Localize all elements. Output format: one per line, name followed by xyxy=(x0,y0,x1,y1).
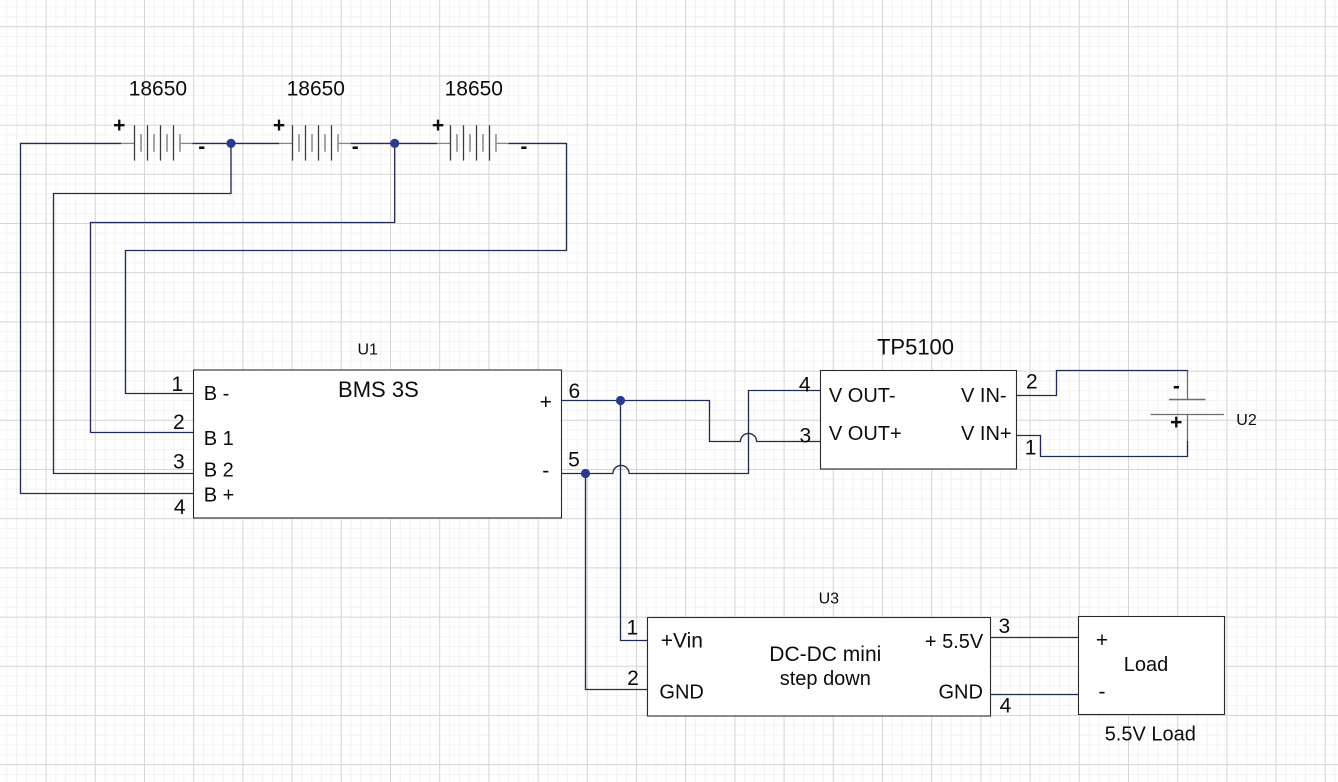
junction node U1 pin5 xyxy=(581,469,590,478)
svg-text:3: 3 xyxy=(999,615,1011,638)
svg-text:-: - xyxy=(542,460,549,483)
wire TP5100 pin 1 V IN+ to battery U2 positive xyxy=(1017,436,1188,457)
svg-text:B +: B + xyxy=(204,485,235,507)
svg-text:-: - xyxy=(1173,375,1180,398)
svg-text:GND: GND xyxy=(938,681,982,703)
svg-text:18650: 18650 xyxy=(129,78,187,101)
svg-text:B 1: B 1 xyxy=(204,428,234,450)
U1 BMS 3S box xyxy=(194,370,562,518)
svg-text:18650: 18650 xyxy=(445,78,503,101)
svg-text:-: - xyxy=(1099,680,1106,703)
svg-text:5: 5 xyxy=(568,449,580,472)
Load box xyxy=(1079,617,1225,715)
junction node battery2- xyxy=(390,139,399,148)
wire TP5100 pin 2 V IN- to battery U2 negative xyxy=(1017,371,1188,396)
wire node pin6 down to U3 pin 1 +Vin xyxy=(621,401,648,641)
svg-text:+Vin: +Vin xyxy=(661,630,703,653)
svg-text:18650: 18650 xyxy=(287,78,345,101)
wire battery3- to U1 B- pin 1 xyxy=(126,143,567,393)
battery BT3 18650 xyxy=(437,125,508,160)
wire U1 pin 5 - to TP5100 pin 4 V OUT- with hop xyxy=(562,391,821,474)
junction node U1 pin6 xyxy=(616,396,625,405)
wire battery1+ to U1 B+ pin 4 xyxy=(21,143,194,493)
battery BT1 18650 xyxy=(121,125,192,160)
svg-text:GND: GND xyxy=(659,681,703,703)
svg-text:2: 2 xyxy=(627,667,639,690)
svg-text:-: - xyxy=(520,135,527,158)
svg-text:V OUT+: V OUT+ xyxy=(829,423,902,445)
svg-text:1: 1 xyxy=(1025,437,1037,460)
TP5100 box xyxy=(821,371,1017,470)
U3 DC-DC box xyxy=(648,618,991,717)
wire U3 pin 3 +5.5V to Load + xyxy=(991,637,1079,639)
svg-text:+: + xyxy=(1096,629,1108,652)
svg-text:B -: B - xyxy=(204,383,230,405)
svg-text:2: 2 xyxy=(173,411,185,434)
svg-text:TP5100: TP5100 xyxy=(877,335,954,360)
svg-text:6: 6 xyxy=(568,380,580,403)
battery BT2 18650 xyxy=(279,125,351,160)
svg-text:4: 4 xyxy=(1000,695,1012,718)
svg-text:U2: U2 xyxy=(1236,412,1257,429)
svg-text:+: + xyxy=(540,391,552,414)
svg-text:V IN-: V IN- xyxy=(961,385,1007,407)
svg-text:-: - xyxy=(198,135,205,158)
wire node battery1- to U1 B2 pin 3 xyxy=(54,143,232,473)
battery U2 xyxy=(1151,371,1225,441)
wire node pin5 down to U3 pin 2 GND xyxy=(586,474,648,690)
svg-text:+: + xyxy=(1170,411,1182,434)
svg-text:3: 3 xyxy=(173,450,185,473)
svg-text:1: 1 xyxy=(626,617,638,640)
wire node battery2- to U1 B1 pin 2 xyxy=(91,143,395,432)
svg-text:+ 5.5V: + 5.5V xyxy=(925,631,984,653)
svg-text:2: 2 xyxy=(1026,371,1038,394)
svg-text:-: - xyxy=(352,135,359,158)
svg-text:5.5V Load: 5.5V Load xyxy=(1105,724,1196,746)
svg-text:Load: Load xyxy=(1124,654,1169,676)
svg-text:+: + xyxy=(273,114,285,137)
svg-text:1: 1 xyxy=(172,373,184,396)
svg-text:3: 3 xyxy=(799,424,811,447)
svg-text:DC-DC mini: DC-DC mini xyxy=(769,643,881,666)
wire U3 pin 4 GND to Load - xyxy=(991,694,1079,696)
svg-text:step down: step down xyxy=(780,668,871,690)
svg-text:BMS 3S: BMS 3S xyxy=(338,377,419,402)
svg-text:V IN+: V IN+ xyxy=(961,423,1012,445)
svg-text:4: 4 xyxy=(174,496,186,519)
svg-text:V OUT-: V OUT- xyxy=(829,385,896,407)
svg-text:U1: U1 xyxy=(357,342,378,359)
wire battery1- to battery2+ xyxy=(192,142,279,144)
svg-text:+: + xyxy=(113,114,125,137)
svg-text:4: 4 xyxy=(799,374,811,397)
svg-text:+: + xyxy=(432,114,444,137)
junction node battery1- xyxy=(226,139,235,148)
wire battery2- to battery3+ xyxy=(351,142,438,144)
wire U1 pin 6 + to TP5100 pin 3 V OUT+ with hop xyxy=(562,401,821,442)
svg-text:B 2: B 2 xyxy=(204,459,234,481)
svg-text:U3: U3 xyxy=(819,591,840,608)
